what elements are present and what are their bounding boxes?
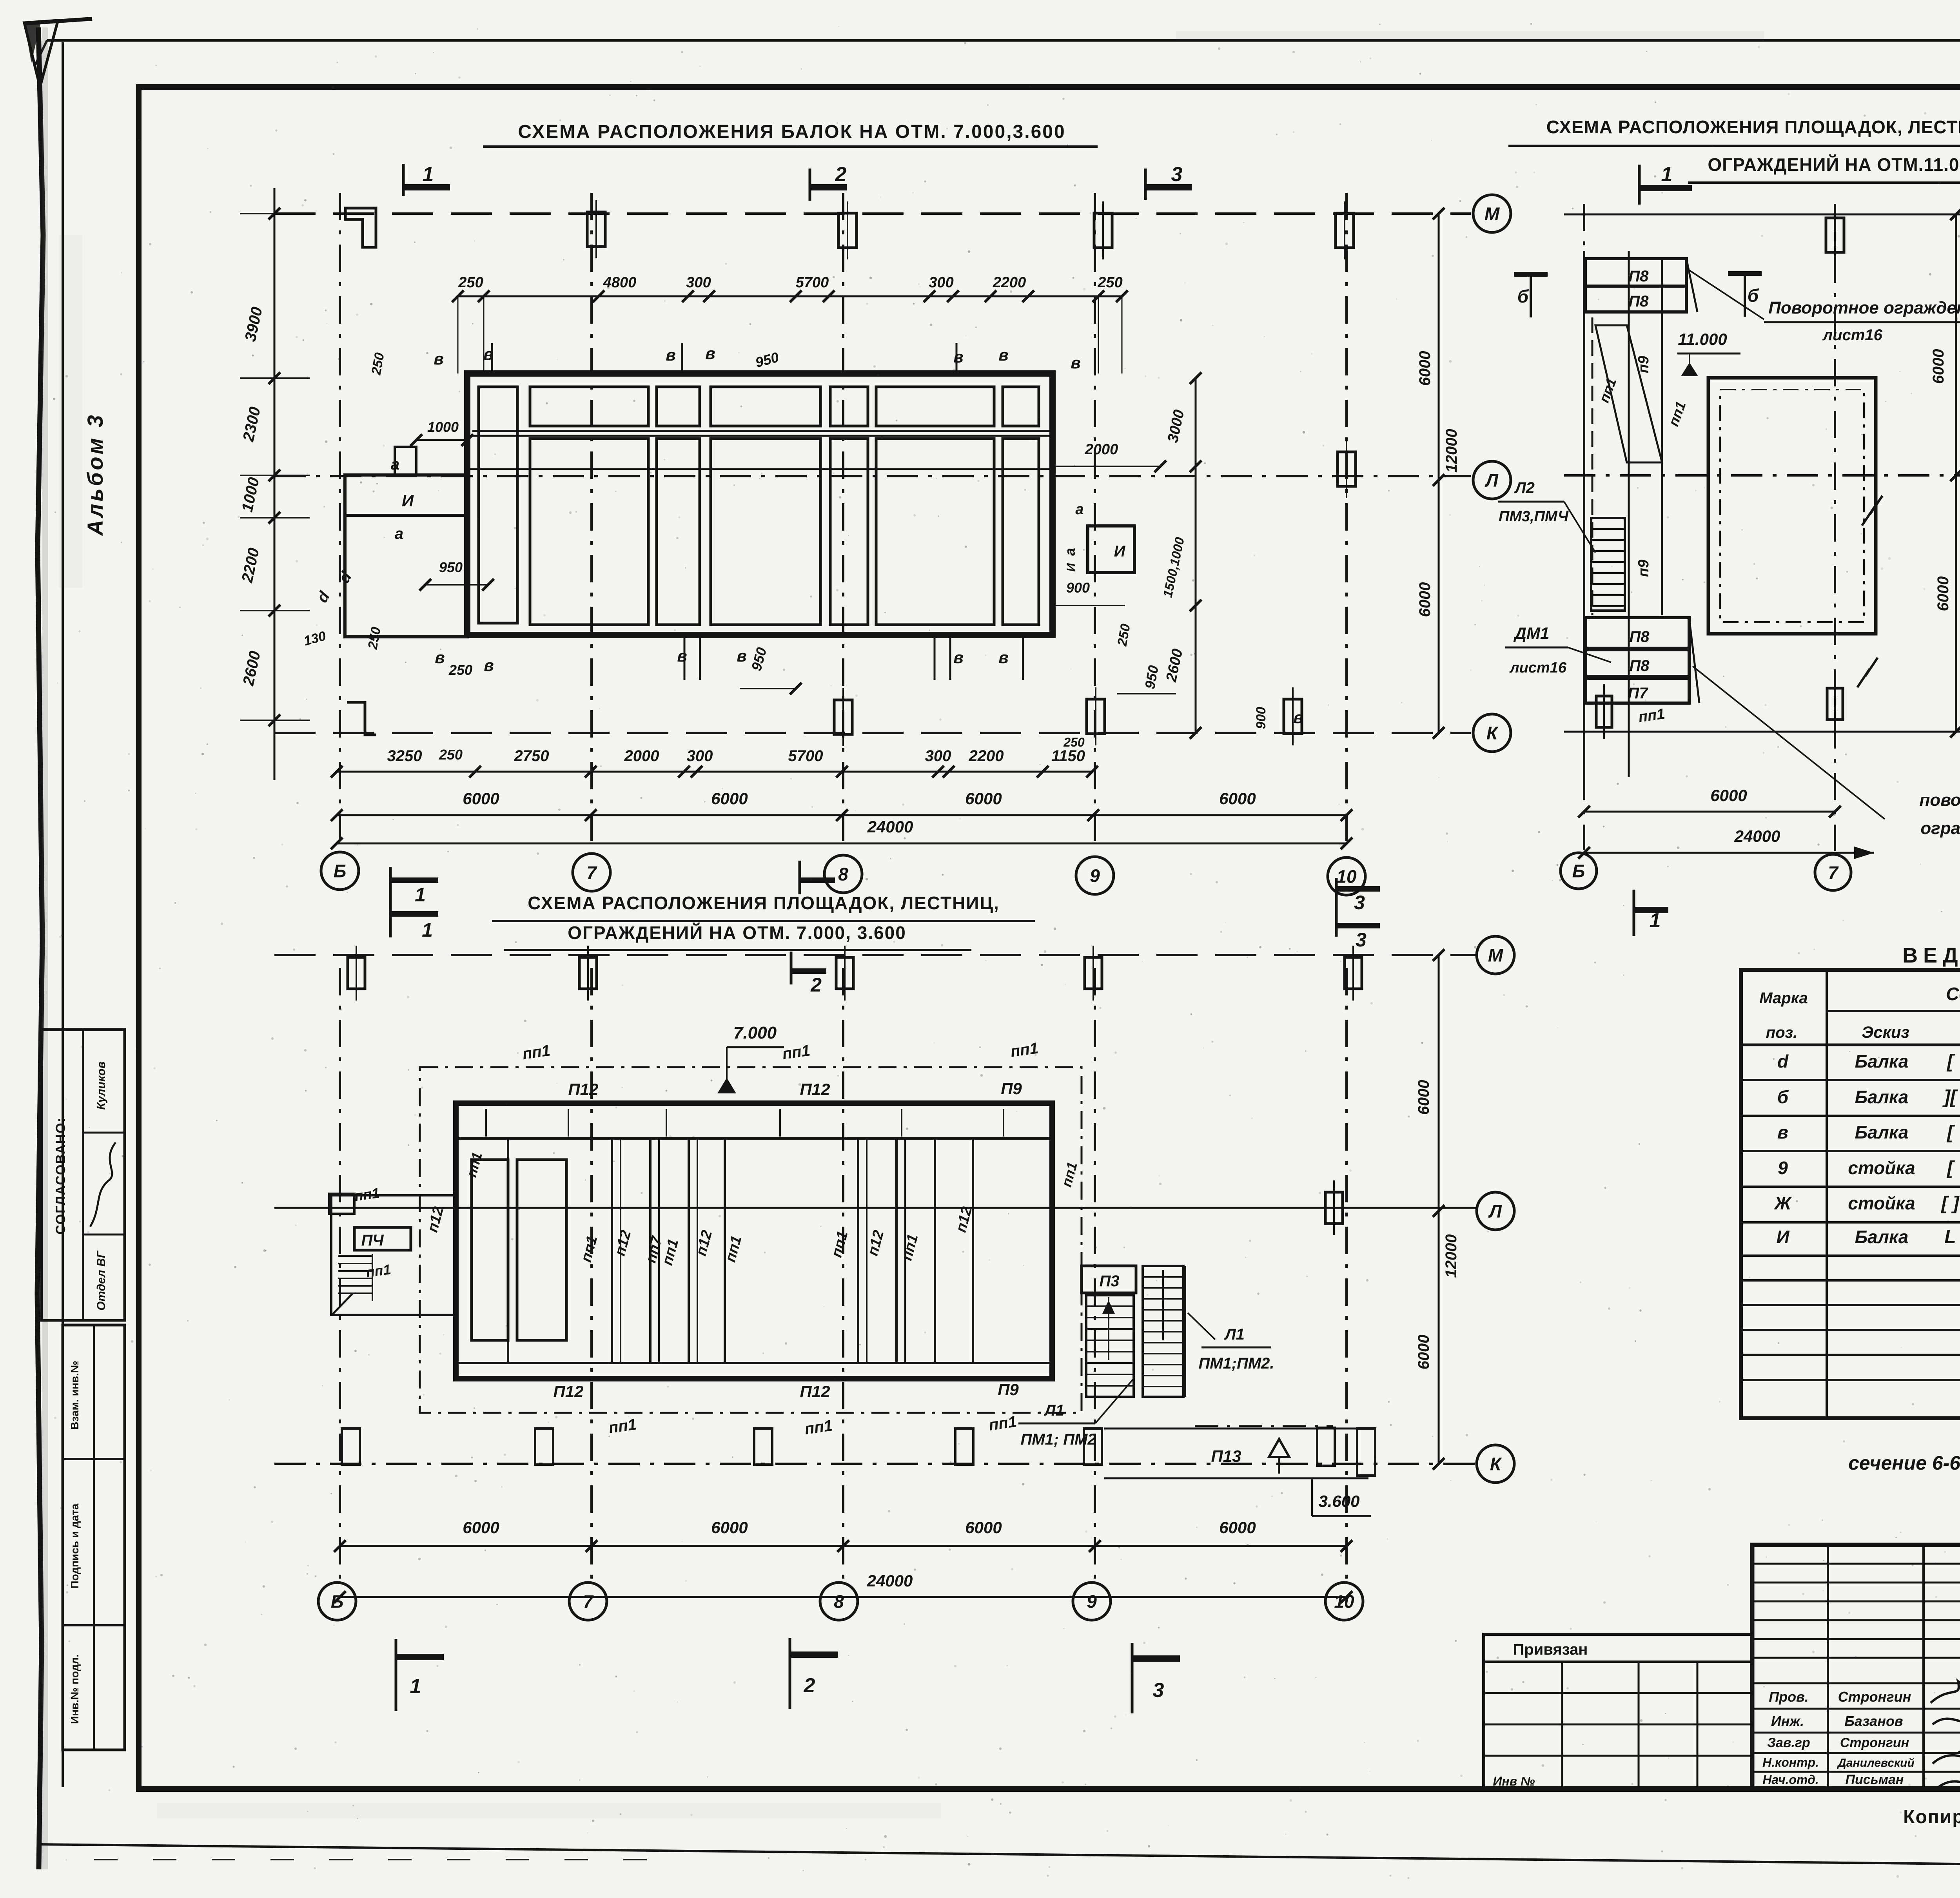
svg-text:Н.контр.: Н.контр. bbox=[1762, 1755, 1819, 1769]
svg-text:К: К bbox=[1486, 723, 1499, 743]
svg-text:900: 900 bbox=[1066, 580, 1090, 596]
svg-text:Б: Б bbox=[1572, 861, 1585, 881]
svg-text:1: 1 bbox=[415, 884, 426, 906]
svg-text:6000: 6000 bbox=[463, 789, 499, 808]
svg-text:900: 900 bbox=[1254, 707, 1269, 729]
svg-text:6000: 6000 bbox=[965, 789, 1002, 808]
svg-text:Инж.: Инж. bbox=[1771, 1713, 1804, 1729]
svg-text:СОГЛАСОВАНО:: СОГЛАСОВАНО: bbox=[53, 1117, 68, 1235]
svg-text:5700: 5700 bbox=[796, 274, 829, 291]
svg-text:а: а bbox=[395, 525, 403, 542]
svg-text:3: 3 bbox=[1356, 929, 1367, 951]
svg-text:7: 7 bbox=[586, 863, 597, 883]
svg-text:250: 250 bbox=[448, 662, 472, 678]
svg-text:9: 9 bbox=[1778, 1158, 1788, 1178]
svg-text:6000: 6000 bbox=[1416, 351, 1434, 386]
svg-text:в: в bbox=[666, 346, 675, 364]
svg-text:Подпись и дата: Подпись и дата bbox=[69, 1503, 81, 1588]
svg-text:2200: 2200 bbox=[993, 274, 1026, 291]
svg-text:6000: 6000 bbox=[1219, 1518, 1256, 1537]
svg-text:Поворотное ограждение: Поворотное ограждение bbox=[1768, 298, 1960, 317]
svg-text:Балка: Балка bbox=[1855, 1087, 1909, 1107]
svg-text:Письман: Письман bbox=[1846, 1772, 1904, 1787]
svg-text:Л: Л bbox=[1488, 1201, 1502, 1222]
svg-text:лист16: лист16 bbox=[1509, 660, 1567, 676]
svg-text:300: 300 bbox=[687, 747, 713, 765]
svg-text:Пров.: Пров. bbox=[1769, 1689, 1809, 1705]
svg-text:][: ][ bbox=[1942, 1087, 1958, 1108]
svg-text:П7: П7 bbox=[1628, 685, 1648, 702]
svg-text:300: 300 bbox=[925, 747, 951, 765]
svg-text:24000: 24000 bbox=[1734, 827, 1780, 845]
svg-text:8: 8 bbox=[838, 864, 848, 885]
svg-text:12000: 12000 bbox=[1443, 1234, 1460, 1278]
svg-text:9: 9 bbox=[1090, 866, 1100, 886]
svg-text:Эскиз: Эскиз bbox=[1862, 1023, 1909, 1041]
svg-text:ОГРАЖДЕНИЙ НА ОТМ.11.000: ОГРАЖДЕНИЙ НА ОТМ.11.000 bbox=[1708, 154, 1960, 175]
svg-text:Базанов: Базанов bbox=[1844, 1713, 1903, 1729]
svg-text:6000: 6000 bbox=[1415, 1335, 1432, 1370]
svg-text:2750: 2750 bbox=[514, 747, 549, 765]
svg-text:поз.: поз. bbox=[1766, 1024, 1797, 1041]
svg-text:в: в bbox=[953, 348, 963, 366]
svg-text:поворотное: поворотное bbox=[1920, 790, 1960, 810]
svg-text:в: в bbox=[434, 350, 443, 368]
svg-text:10: 10 bbox=[1334, 1592, 1354, 1612]
svg-text:К: К bbox=[1490, 1454, 1502, 1474]
svg-text:250: 250 bbox=[458, 274, 483, 291]
svg-text:2: 2 bbox=[810, 974, 822, 996]
svg-text:1: 1 bbox=[422, 919, 433, 941]
svg-text:в: в bbox=[484, 656, 494, 674]
svg-text:2000: 2000 bbox=[1085, 441, 1118, 458]
svg-text:б: б bbox=[1517, 286, 1529, 306]
svg-text:ПЧ: ПЧ bbox=[361, 1232, 384, 1249]
svg-text:М: М bbox=[1488, 945, 1504, 966]
svg-text:3250: 3250 bbox=[387, 747, 422, 765]
svg-text:п9: п9 bbox=[1635, 560, 1652, 577]
svg-text:ВЕДОМОСТЬ ЭЛЕМЕНТОВ: ВЕДОМОСТЬ ЭЛЕМЕНТОВ bbox=[1902, 944, 1960, 967]
svg-text:24000: 24000 bbox=[867, 1572, 913, 1590]
svg-text:6000: 6000 bbox=[711, 1518, 748, 1537]
svg-text:И: И bbox=[402, 491, 414, 510]
svg-text:6000: 6000 bbox=[1416, 582, 1434, 617]
svg-text:11.000: 11.000 bbox=[1678, 330, 1727, 348]
svg-text:П12: П12 bbox=[800, 1080, 830, 1099]
svg-text:7.000: 7.000 bbox=[733, 1023, 777, 1042]
svg-text:300: 300 bbox=[929, 274, 953, 291]
svg-text:лист16: лист16 bbox=[1822, 326, 1882, 344]
svg-text:1: 1 bbox=[1661, 163, 1673, 186]
svg-text:ПМ1;ПМ2.: ПМ1;ПМ2. bbox=[1198, 1355, 1274, 1372]
svg-text:950: 950 bbox=[439, 559, 463, 575]
svg-text:сечение 6-6 см лист 20 ,: сечение 6-6 см лист 20 , разрезы 1-1... … bbox=[1848, 1452, 1960, 1474]
svg-text:в: в bbox=[953, 648, 963, 667]
svg-text:б: б bbox=[1777, 1087, 1789, 1107]
svg-text:Куликов: Куликов bbox=[95, 1061, 108, 1109]
svg-text:ограждение-лист16: ограждение-лист16 bbox=[1920, 819, 1960, 838]
svg-text:6000: 6000 bbox=[1930, 349, 1947, 384]
svg-text:Л: Л bbox=[1485, 470, 1499, 491]
svg-text:в: в bbox=[705, 344, 715, 363]
svg-text:а: а bbox=[1075, 501, 1083, 518]
svg-text:Балка: Балка bbox=[1855, 1227, 1909, 1247]
svg-text:Марка: Марка bbox=[1759, 990, 1808, 1007]
svg-text:L: L bbox=[1944, 1227, 1956, 1247]
svg-text:П12: П12 bbox=[554, 1382, 584, 1401]
svg-text:б: б bbox=[1748, 285, 1759, 306]
svg-text:3: 3 bbox=[1171, 163, 1183, 186]
svg-text:1: 1 bbox=[1650, 909, 1661, 932]
svg-text:300: 300 bbox=[686, 274, 711, 291]
svg-text:2200: 2200 bbox=[969, 747, 1004, 765]
svg-text:2: 2 bbox=[804, 1674, 815, 1697]
svg-text:12000: 12000 bbox=[1443, 429, 1460, 472]
svg-text:3: 3 bbox=[1153, 1679, 1164, 1702]
svg-text:Л2: Л2 bbox=[1514, 479, 1535, 497]
svg-text:1: 1 bbox=[410, 1675, 421, 1698]
svg-text:Балка: Балка bbox=[1855, 1051, 1909, 1071]
svg-text:ДМ1: ДМ1 bbox=[1514, 624, 1550, 642]
svg-text:Взам. инв.№: Взам. инв.№ bbox=[69, 1361, 81, 1430]
svg-text:5700: 5700 bbox=[788, 747, 823, 765]
svg-text:СХЕМА РАСПОЛОЖЕНИЯ ПЛОЩАДОК,: СХЕМА РАСПОЛОЖЕНИЯ ПЛОЩАДОК, ЛЕСТНИЦ, bbox=[528, 893, 1000, 913]
svg-text:П9: П9 bbox=[1001, 1079, 1022, 1098]
svg-text:1150: 1150 bbox=[1051, 747, 1085, 765]
svg-text:П9: П9 bbox=[998, 1380, 1019, 1399]
svg-text:в: в bbox=[998, 648, 1008, 667]
svg-text:П8: П8 bbox=[1628, 293, 1649, 310]
svg-text:И: И bbox=[1776, 1227, 1789, 1247]
svg-text:Л1: Л1 bbox=[1224, 1326, 1245, 1343]
svg-text:П12: П12 bbox=[568, 1080, 599, 1099]
svg-text:П12: П12 bbox=[800, 1382, 830, 1401]
svg-text:в: в bbox=[1777, 1122, 1788, 1142]
svg-text:П8: П8 bbox=[1629, 628, 1650, 645]
svg-text:6000: 6000 bbox=[1219, 789, 1256, 808]
svg-text:а: а bbox=[391, 456, 399, 473]
svg-text:Б: Б bbox=[331, 1592, 344, 1612]
svg-text:Стронгин: Стронгин bbox=[1840, 1735, 1909, 1750]
svg-text:6000: 6000 bbox=[463, 1518, 499, 1537]
svg-text:в: в bbox=[677, 647, 687, 665]
svg-text:П13: П13 bbox=[1211, 1447, 1241, 1465]
svg-text:24000: 24000 bbox=[867, 818, 913, 836]
svg-text:в: в bbox=[737, 647, 746, 665]
svg-text:Ж: Ж bbox=[1774, 1193, 1792, 1213]
svg-text:Отдел ВГ: Отдел ВГ bbox=[95, 1250, 108, 1311]
svg-text:П3: П3 bbox=[1099, 1273, 1119, 1290]
svg-text:250: 250 bbox=[1097, 274, 1122, 291]
svg-text:М: М bbox=[1485, 204, 1500, 224]
svg-text:в: в bbox=[998, 346, 1008, 364]
svg-text:Альбом 3: Альбом 3 bbox=[83, 413, 107, 537]
svg-text:Привязан: Привязан bbox=[1513, 1641, 1588, 1658]
svg-text:Сечение: Сечение bbox=[1946, 984, 1960, 1004]
svg-text:в: в bbox=[1071, 353, 1080, 372]
svg-text:Балка: Балка bbox=[1855, 1122, 1909, 1142]
svg-text:а: а bbox=[1062, 548, 1078, 556]
svg-text:d: d bbox=[1777, 1051, 1789, 1071]
svg-text:Инв №: Инв № bbox=[1493, 1774, 1535, 1788]
svg-text:6000: 6000 bbox=[1935, 576, 1952, 611]
svg-text:стойка: стойка bbox=[1848, 1158, 1915, 1178]
svg-text:ПМ3,ПМЧ: ПМ3,ПМЧ bbox=[1499, 508, 1569, 525]
svg-text:Стронгин: Стронгин bbox=[1838, 1689, 1911, 1705]
svg-text:Копировал: Коршунова: Копировал: Коршунова bbox=[1903, 1807, 1960, 1827]
svg-text:Нач.отд.: Нач.отд. bbox=[1762, 1773, 1818, 1787]
svg-text:1: 1 bbox=[423, 163, 434, 186]
svg-text:1000: 1000 bbox=[427, 419, 459, 435]
svg-text:ОГРАЖДЕНИЙ НА ОТМ. 7.000, 3.6: ОГРАЖДЕНИЙ НА ОТМ. 7.000, 3.600 bbox=[568, 923, 906, 943]
svg-text:7: 7 bbox=[1828, 863, 1839, 883]
svg-text:СХЕМА РАСПОЛОЖЕНИЯ БАЛОК НА ОТ: СХЕМА РАСПОЛОЖЕНИЯ БАЛОК НА ОТМ. 7.000,3… bbox=[518, 121, 1065, 142]
svg-text:2: 2 bbox=[835, 163, 847, 186]
svg-text:Данилевский: Данилевский bbox=[1837, 1757, 1915, 1769]
svg-text:И: И bbox=[1114, 543, 1126, 560]
svg-text:Б: Б bbox=[334, 861, 347, 881]
svg-text:3.600: 3.600 bbox=[1318, 1492, 1359, 1510]
svg-text:п9: п9 bbox=[1635, 356, 1652, 373]
svg-text:Зав.гр: Зав.гр bbox=[1767, 1735, 1810, 1750]
svg-text:П8: П8 bbox=[1629, 657, 1650, 674]
svg-text:Л1: Л1 bbox=[1044, 1402, 1064, 1419]
svg-text:6000: 6000 bbox=[965, 1518, 1002, 1537]
svg-text:7: 7 bbox=[583, 1592, 594, 1612]
svg-text:6000: 6000 bbox=[711, 789, 748, 808]
svg-text:Инв.№ подл.: Инв.№ подл. bbox=[69, 1654, 81, 1724]
svg-text:3: 3 bbox=[1354, 892, 1365, 914]
svg-text:10: 10 bbox=[1336, 867, 1357, 887]
svg-text:стойка: стойка bbox=[1848, 1193, 1915, 1213]
svg-text:П8: П8 bbox=[1628, 268, 1649, 285]
svg-text:в: в bbox=[435, 648, 445, 667]
svg-text:9: 9 bbox=[1087, 1592, 1097, 1612]
svg-text:6000: 6000 bbox=[1415, 1080, 1432, 1115]
svg-text:СХЕМА РАСПОЛОЖЕНИЯ ПЛОЩАДОК, Л: СХЕМА РАСПОЛОЖЕНИЯ ПЛОЩАДОК, ЛЕСТНИЦ, bbox=[1546, 117, 1960, 137]
svg-text:6000: 6000 bbox=[1710, 786, 1747, 805]
svg-text:8: 8 bbox=[834, 1592, 844, 1612]
svg-text:[ ]: [ ] bbox=[1940, 1193, 1960, 1214]
svg-text:в: в bbox=[483, 345, 493, 363]
svg-text:И: И bbox=[1065, 563, 1078, 572]
svg-text:2000: 2000 bbox=[624, 747, 659, 765]
svg-text:250: 250 bbox=[439, 747, 463, 763]
